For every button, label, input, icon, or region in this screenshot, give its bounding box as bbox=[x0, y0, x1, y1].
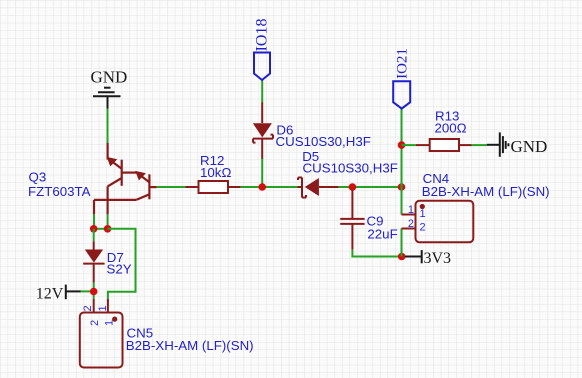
power symbol 12V bbox=[66, 285, 81, 300]
svg-text:1: 1 bbox=[97, 305, 109, 311]
svg-text:1: 1 bbox=[104, 320, 116, 326]
diode D6 schottky bbox=[253, 102, 273, 159]
wire node G to CN5 pin 1 (L path) bbox=[108, 229, 136, 299]
svg-text:CUS10S30,H3F: CUS10S30,H3F bbox=[303, 161, 398, 176]
svg-text:FZT603TA: FZT603TA bbox=[28, 184, 91, 199]
hierarchical label IO21 bbox=[393, 81, 410, 108]
junction node D (3V3) bbox=[398, 253, 406, 261]
svg-text:2: 2 bbox=[82, 305, 94, 311]
svg-text:2: 2 bbox=[89, 320, 101, 326]
svg-text:1: 1 bbox=[408, 204, 414, 216]
transistor Q3 Darlington bbox=[94, 143, 157, 214]
junction node F bbox=[90, 225, 98, 233]
wire CN4 pin 2 down to node D bbox=[401, 229, 403, 257]
wire Q3 collectors to junction dots bbox=[93, 214, 95, 229]
wire 12V to node H bbox=[80, 290, 94, 292]
svg-text:GND: GND bbox=[91, 68, 128, 87]
diode D7 bbox=[83, 241, 104, 282]
wire GND to Q3 emitter bbox=[107, 109, 109, 144]
wire C9 bottom to 3V3 node bbox=[352, 250, 401, 257]
capacitor C9 bbox=[340, 190, 364, 250]
emitter arrow 1 of Q3 bbox=[107, 157, 118, 167]
svg-text:CUS10S30,H3F: CUS10S30,H3F bbox=[276, 134, 371, 149]
CN5 pin 1 marker bbox=[112, 317, 117, 322]
svg-text:IO18: IO18 bbox=[254, 19, 271, 52]
svg-text:B2B-XH-AM (LF)(SN): B2B-XH-AM (LF)(SN) bbox=[422, 184, 550, 199]
wire node H down to CN5 pin 2 bbox=[93, 292, 95, 299]
wire R12 to node A bbox=[241, 186, 298, 188]
hierarchical label IO18 bbox=[254, 53, 270, 81]
diode D5 schottky bbox=[298, 178, 339, 198]
wire IO21 down to node E bbox=[401, 109, 403, 187]
ground symbol GND (right) bbox=[487, 132, 509, 156]
wire D5 to node B bbox=[339, 186, 402, 188]
wire node F down to D7 bbox=[93, 229, 95, 241]
junction node A bbox=[258, 183, 266, 191]
svg-text:200Ω: 200Ω bbox=[435, 121, 467, 136]
svg-text:22uF: 22uF bbox=[367, 226, 397, 241]
svg-text:3V3: 3V3 bbox=[424, 250, 452, 267]
power symbol 3V3 bbox=[405, 250, 422, 263]
junction node C bbox=[398, 183, 406, 191]
svg-text:1: 1 bbox=[420, 208, 426, 220]
junction node E bbox=[398, 141, 406, 149]
wire node A up to D6 bbox=[261, 158, 263, 187]
wire between collector nodes bbox=[94, 228, 108, 230]
resistor R13 bbox=[416, 139, 472, 151]
svg-text:S2Y: S2Y bbox=[107, 262, 132, 277]
svg-text:2: 2 bbox=[420, 222, 426, 234]
connector CN5 bbox=[80, 299, 123, 368]
wire R13 to GND right bbox=[472, 144, 487, 146]
svg-text:12V: 12V bbox=[36, 285, 64, 302]
svg-text:GND: GND bbox=[511, 137, 548, 156]
junction node G bbox=[104, 225, 112, 233]
svg-text:IO21: IO21 bbox=[395, 48, 411, 79]
svg-text:B2B-XH-AM (LF)(SN): B2B-XH-AM (LF)(SN) bbox=[126, 338, 254, 353]
svg-text:2: 2 bbox=[408, 218, 414, 230]
svg-text:Q3: Q3 bbox=[29, 170, 47, 185]
wire node C down to CN4 pin 1 bbox=[401, 187, 403, 215]
emitter arrow 2 of Q3 bbox=[135, 171, 146, 181]
wire Q3 base to R12 bbox=[157, 186, 186, 188]
wire node E to R13 bbox=[402, 144, 416, 146]
wire D7 to node H bbox=[93, 283, 95, 292]
connector CN4 bbox=[402, 201, 474, 243]
junction node H bbox=[90, 288, 98, 296]
junction node B bbox=[349, 183, 357, 191]
resistor R12 bbox=[186, 181, 241, 193]
svg-text:10kΩ: 10kΩ bbox=[200, 165, 231, 180]
wire D6 to IO18 bbox=[261, 80, 263, 103]
ground symbol GND (top-left earth) bbox=[93, 88, 121, 109]
CN4 pin 1 marker bbox=[420, 204, 425, 209]
